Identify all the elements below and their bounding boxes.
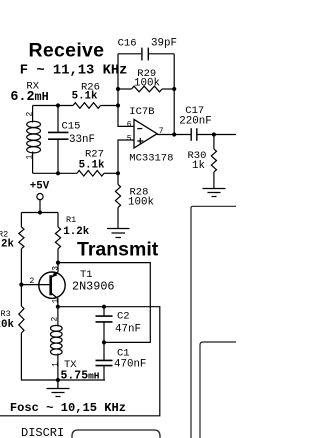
capacitor C17 bbox=[190, 128, 192, 141]
svg-text:1.2k: 1.2k bbox=[63, 226, 89, 238]
capacitor C16 bbox=[118, 53, 141, 55]
wire top rail receive bbox=[33, 105, 73, 107]
wire bottom rail transmit bbox=[21, 333, 105, 380]
svg-text:Transmit: Transmit bbox=[77, 239, 159, 261]
svg-text:C16: C16 bbox=[118, 38, 137, 50]
svg-text:20k: 20k bbox=[0, 319, 14, 331]
transistor Q1 T1 bbox=[39, 272, 65, 298]
ground TX bbox=[47, 380, 70, 397]
resistor R26 bbox=[73, 103, 101, 109]
svg-text:1k: 1k bbox=[192, 160, 205, 172]
svg-text:6: 6 bbox=[127, 121, 132, 130]
svg-text:IC7B: IC7B bbox=[129, 106, 154, 118]
svg-text:+5V: +5V bbox=[30, 181, 50, 193]
box right block bbox=[191, 206, 240, 438]
svg-text:Fosc ~ 10,15 KHz: Fosc ~ 10,15 KHz bbox=[10, 401, 126, 415]
node C1/C2 mid bbox=[102, 340, 106, 344]
op-amp U1 IC7B bbox=[134, 119, 157, 148]
wire R26 to feedback node bbox=[101, 105, 119, 107]
svg-text:R1: R1 bbox=[66, 215, 76, 225]
svg-text:47nF: 47nF bbox=[115, 324, 141, 336]
wire base bbox=[21, 284, 49, 286]
svg-text:2N3906: 2N3906 bbox=[72, 280, 114, 294]
box DISCRI bbox=[72, 430, 160, 438]
svg-text:6.2mH: 6.2mH bbox=[10, 90, 48, 105]
svg-text:2: 2 bbox=[51, 317, 60, 322]
node base bbox=[19, 283, 23, 287]
opamp plus bbox=[137, 138, 143, 144]
svg-text:100k: 100k bbox=[128, 197, 154, 209]
inductor TX bbox=[57, 307, 59, 380]
resistor R1 bbox=[57, 213, 59, 228]
svg-text:C15: C15 bbox=[62, 120, 81, 132]
wire emitter to C1/C2 mid bbox=[58, 263, 150, 343]
node TX bottom bbox=[56, 378, 60, 382]
svg-text:39pF: 39pF bbox=[151, 38, 177, 50]
node R27/R28 bbox=[116, 171, 120, 175]
capacitor C1 bbox=[103, 342, 105, 360]
node C15 top bbox=[56, 103, 60, 107]
wire feedback right vertical bbox=[173, 54, 175, 135]
svg-text:1: 1 bbox=[26, 155, 35, 160]
node C17/R30 bbox=[212, 132, 216, 136]
resistor R29 bbox=[118, 88, 132, 90]
svg-text:F ~ 11,13 KHz: F ~ 11,13 KHz bbox=[20, 63, 128, 78]
svg-text:DISCRI: DISCRI bbox=[21, 426, 64, 438]
svg-text:5: 5 bbox=[127, 135, 132, 144]
svg-text:1: 1 bbox=[52, 299, 61, 304]
wire R27 to pin5 node bbox=[104, 172, 118, 174]
svg-text:2: 2 bbox=[26, 112, 35, 117]
wire +5V rail bbox=[21, 212, 58, 214]
ground R30 bbox=[203, 189, 226, 197]
svg-text:Receive: Receive bbox=[29, 39, 105, 61]
resistor R30 bbox=[213, 135, 215, 150]
svg-text:470nF: 470nF bbox=[114, 359, 146, 371]
svg-text:C2: C2 bbox=[117, 311, 130, 323]
wire op-amp output bbox=[157, 134, 191, 136]
svg-text:2: 2 bbox=[30, 277, 35, 286]
node output/feedback bbox=[172, 132, 176, 136]
svg-text:100k: 100k bbox=[134, 77, 160, 89]
resistor R2 bbox=[20, 213, 22, 228]
node C15 bottom bbox=[56, 171, 60, 175]
node collector bbox=[56, 305, 60, 309]
wire feedback left vertical bbox=[118, 54, 134, 127]
svg-text:5.1k: 5.1k bbox=[79, 160, 105, 172]
svg-text:3: 3 bbox=[52, 266, 61, 271]
node +5V rail bbox=[38, 210, 42, 214]
svg-text:220nF: 220nF bbox=[179, 115, 211, 127]
ground R28 bbox=[107, 229, 130, 238]
svg-text:MC33178: MC33178 bbox=[129, 152, 173, 164]
box right inner block bbox=[200, 342, 240, 438]
wire collector to right bbox=[0, 307, 160, 416]
svg-text:5.1k: 5.1k bbox=[72, 91, 98, 103]
resistor R28 bbox=[117, 173, 119, 184]
svg-text:33nF: 33nF bbox=[69, 134, 95, 146]
svg-text:R3: R3 bbox=[1, 309, 11, 319]
opamp minus bbox=[137, 128, 142, 130]
inductor RX bbox=[32, 106, 34, 174]
svg-text:5.75mH: 5.75mH bbox=[61, 370, 100, 383]
node emitter bbox=[56, 261, 60, 265]
node C2 top bbox=[102, 305, 106, 309]
capacitor C15 bbox=[57, 106, 59, 133]
node R29 left bbox=[116, 87, 120, 91]
resistor R27 bbox=[77, 171, 104, 177]
capacitor C2 bbox=[103, 307, 105, 316]
wire pin5 vertical bbox=[118, 140, 134, 173]
svg-text:1: 1 bbox=[52, 362, 61, 367]
node R26/feedback bbox=[116, 103, 120, 107]
svg-text:1.2k: 1.2k bbox=[0, 239, 14, 251]
wire bottom rail receive bbox=[33, 172, 77, 174]
node R29 right bbox=[172, 87, 176, 91]
resistor R3 bbox=[20, 285, 22, 306]
